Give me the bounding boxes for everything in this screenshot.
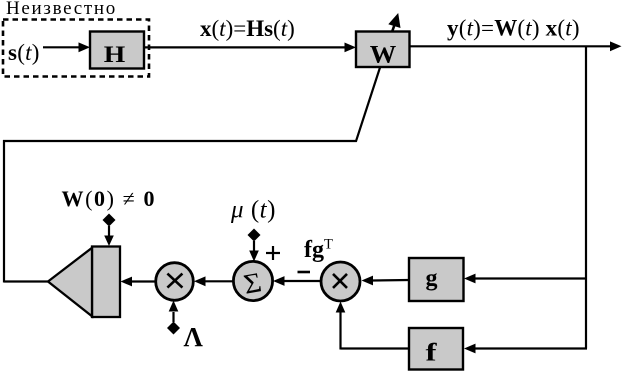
svg-text:s(t): s(t)	[8, 40, 40, 65]
svg-text:Неизвестно: Неизвестно	[6, 0, 117, 19]
arrow μ into Σ	[249, 241, 259, 262]
svg-text:H: H	[104, 42, 126, 68]
block f	[409, 328, 463, 370]
diamond on μ input	[248, 229, 261, 242]
wire: feedback tap vertical line on right	[585, 46, 587, 348]
wire X1 to integrator	[121, 277, 156, 287]
integrator block: triangle	[48, 248, 92, 316]
block g	[409, 258, 464, 301]
wire f to X2	[336, 302, 409, 350]
wire into f	[464, 344, 587, 354]
adaptation arrow on W	[388, 13, 400, 32]
arrow W(0) into integrator	[104, 226, 114, 246]
wire s(t) to H	[43, 42, 90, 52]
svg-text:f: f	[426, 340, 438, 367]
feedback wire: integrator output to W	[3, 68, 380, 283]
svg-text:Λ: Λ	[184, 322, 204, 352]
wire Σ to X1	[194, 276, 233, 286]
svg-text:μ (t): μ (t)	[230, 197, 276, 224]
svg-text:g: g	[426, 266, 438, 292]
svg-text:W(0) ≠ 0: W(0) ≠ 0	[62, 186, 157, 211]
plus sign at sum input	[266, 246, 280, 260]
svg-text:W: W	[370, 41, 397, 68]
minus sign at sum input	[298, 271, 311, 274]
diamond on W(0) input	[103, 214, 116, 227]
multiplier X2	[321, 262, 360, 301]
diamond on Λ input	[167, 322, 180, 335]
wire X2 to sum	[273, 276, 321, 286]
svg-text:x(t)=Hs(t): x(t)=Hs(t)	[200, 16, 295, 41]
dashed box (unknown mixing system)	[3, 20, 149, 77]
arrow Λ into X1	[169, 301, 179, 323]
wire H to W	[144, 43, 356, 53]
block H	[90, 32, 144, 69]
svg-text:y(t)=W(t) x(t): y(t)=W(t) x(t)	[447, 16, 580, 41]
wire into g	[464, 274, 586, 284]
wire g to multiplier X2	[362, 276, 410, 286]
wire W output to the right edge	[410, 41, 622, 51]
integrator block: rectangle	[92, 247, 120, 318]
multiplier X1	[156, 263, 194, 301]
block W	[356, 32, 410, 69]
summing junction Σ	[233, 261, 272, 300]
